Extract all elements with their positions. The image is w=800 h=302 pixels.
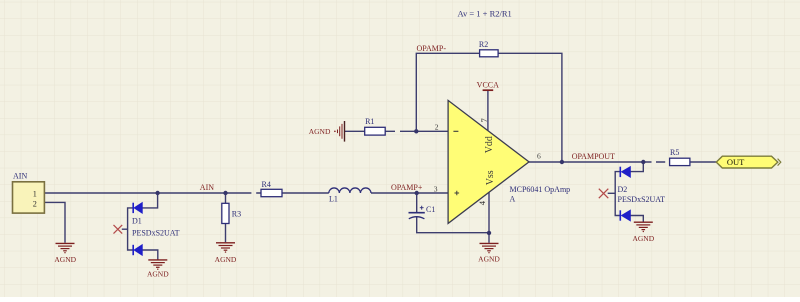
svg-text:R4: R4 bbox=[262, 180, 271, 189]
port OUT bbox=[716, 156, 781, 168]
wire D1 noerc stub bbox=[122, 228, 128, 230]
svg-text:PESDxS2UAT: PESDxS2UAT bbox=[132, 229, 180, 238]
diode D2 top bbox=[620, 167, 630, 177]
ground AGND (R3) bbox=[216, 243, 235, 253]
svg-text:L1: L1 bbox=[329, 195, 338, 204]
op-amp U1 MCP6041 bbox=[434, 100, 570, 223]
ground AGND (D2) bbox=[634, 222, 653, 232]
resistor R4 bbox=[261, 180, 282, 197]
wire feedback left vertical and R2 top row bbox=[416, 53, 479, 131]
svg-text:OPAMP-: OPAMP- bbox=[417, 44, 447, 53]
svg-text:AGND: AGND bbox=[632, 234, 654, 243]
svg-text:2: 2 bbox=[33, 199, 37, 208]
svg-text:R5: R5 bbox=[670, 148, 679, 157]
svg-text:MCP6041 OpAmp: MCP6041 OpAmp bbox=[510, 185, 571, 194]
svg-text:D2: D2 bbox=[618, 185, 628, 194]
wire R1 row / opamp pin2 bbox=[344, 130, 448, 132]
ground AGND (R1, sideways) bbox=[334, 121, 344, 142]
wire opamp output row bbox=[529, 161, 716, 163]
connector AIN header bbox=[13, 172, 45, 214]
wire D2 tap bbox=[630, 162, 643, 172]
wire D2 bottom to ground bbox=[630, 216, 643, 222]
svg-text:AGND: AGND bbox=[478, 255, 500, 264]
wire D2 cathode rail bbox=[615, 172, 620, 216]
svg-text:Vss: Vss bbox=[485, 170, 496, 185]
wire D1 cathode rail bbox=[128, 208, 134, 250]
svg-text:AGND: AGND bbox=[309, 127, 331, 136]
wire AIN pin2 to ground bbox=[45, 202, 65, 242]
junction node OPAMPOUT/D2 bbox=[641, 160, 645, 164]
svg-text:OPAMP+: OPAMP+ bbox=[391, 183, 423, 192]
wire R3 tap bbox=[225, 193, 227, 242]
junction node OPAMP+/C1 bbox=[415, 191, 419, 195]
wire main signal row AIN to opamp pin3 bbox=[45, 192, 448, 194]
wire D1 tap from node AIN bbox=[142, 193, 157, 208]
junction node OPAMP-/R1 bbox=[414, 129, 418, 133]
junction node AIN/D1 bbox=[155, 191, 159, 195]
capacitor C1 bbox=[409, 205, 436, 219]
wire R2 right to output node bbox=[498, 53, 562, 162]
svg-text:Vdd: Vdd bbox=[484, 136, 495, 153]
svg-text:AGND: AGND bbox=[215, 255, 237, 264]
resistor R1 bbox=[365, 117, 386, 135]
wire D2 noerc stub bbox=[608, 192, 616, 194]
wire C1 top lead bbox=[416, 193, 418, 212]
ground AGND (op-amp pin4) bbox=[480, 243, 499, 253]
svg-text:A: A bbox=[510, 194, 516, 203]
noerc marker D1 bbox=[114, 225, 123, 234]
wire D1 bottom to ground bbox=[142, 250, 158, 260]
inductor L1 bbox=[329, 188, 371, 204]
svg-text:2: 2 bbox=[435, 122, 439, 131]
svg-text:D1: D1 bbox=[132, 217, 142, 226]
svg-text:AIN: AIN bbox=[200, 183, 214, 192]
diode D1 bottom bbox=[133, 245, 142, 255]
resistor R3 bbox=[222, 203, 241, 223]
svg-text:PESDxS2UAT: PESDxS2UAT bbox=[618, 195, 666, 204]
diode D2 bottom bbox=[620, 210, 630, 220]
svg-text:R3: R3 bbox=[232, 210, 241, 219]
svg-text:AIN: AIN bbox=[13, 172, 27, 181]
junction node AIN/R3 bbox=[223, 191, 227, 195]
svg-text:6: 6 bbox=[537, 152, 541, 161]
svg-text:OUT: OUT bbox=[727, 157, 745, 167]
wire opamp pin4 to ground bbox=[488, 192, 490, 243]
wire opamp pin7 VCCA bbox=[487, 90, 489, 132]
svg-text:7: 7 bbox=[479, 118, 489, 122]
junction node OPAMPOUT/feedback bbox=[560, 160, 564, 164]
resistor R5 bbox=[670, 148, 690, 166]
svg-text:VCCA: VCCA bbox=[477, 80, 499, 89]
power port VCCA bbox=[477, 80, 499, 90]
svg-text:1: 1 bbox=[33, 190, 37, 199]
svg-text:Av = 1 + R2/R1: Av = 1 + R2/R1 bbox=[458, 8, 512, 18]
diode D1 top bbox=[133, 203, 142, 213]
svg-text:R2: R2 bbox=[479, 40, 488, 49]
svg-text:OPAMPOUT: OPAMPOUT bbox=[572, 152, 615, 161]
ground AGND (AIN pin2) bbox=[56, 243, 75, 253]
noerc marker D2 bbox=[599, 189, 609, 199]
svg-text:AGND: AGND bbox=[54, 255, 76, 264]
wire C1 bottom return to pin4 bbox=[417, 217, 489, 233]
ground AGND (D1) bbox=[148, 260, 167, 270]
svg-text:AGND: AGND bbox=[147, 270, 169, 279]
junction node C1/pin4 bbox=[487, 231, 491, 235]
svg-text:C1: C1 bbox=[426, 205, 435, 214]
svg-text:R1: R1 bbox=[365, 117, 374, 126]
svg-text:3: 3 bbox=[434, 184, 438, 193]
resistor R2 bbox=[479, 40, 498, 57]
